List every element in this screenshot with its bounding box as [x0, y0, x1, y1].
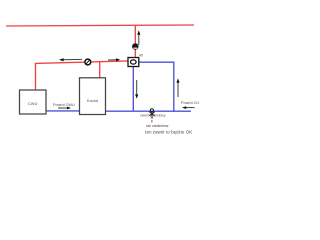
svg-text:Powrót CWU: Powrót CWU — [53, 103, 75, 107]
svg-text:Powrót CO: Powrót CO — [181, 101, 199, 105]
svg-text:zawór przelotowy: zawór przelotowy — [140, 113, 166, 117]
svg-text:40: 40 — [139, 54, 143, 58]
svg-text:tak zamkniesz: tak zamkniesz — [146, 124, 168, 128]
svg-text:ten zawór to będzie OK: ten zawór to będzie OK — [145, 129, 192, 134]
svg-text:CWU: CWU — [28, 101, 38, 106]
svg-text:Kocioł: Kocioł — [87, 98, 98, 103]
